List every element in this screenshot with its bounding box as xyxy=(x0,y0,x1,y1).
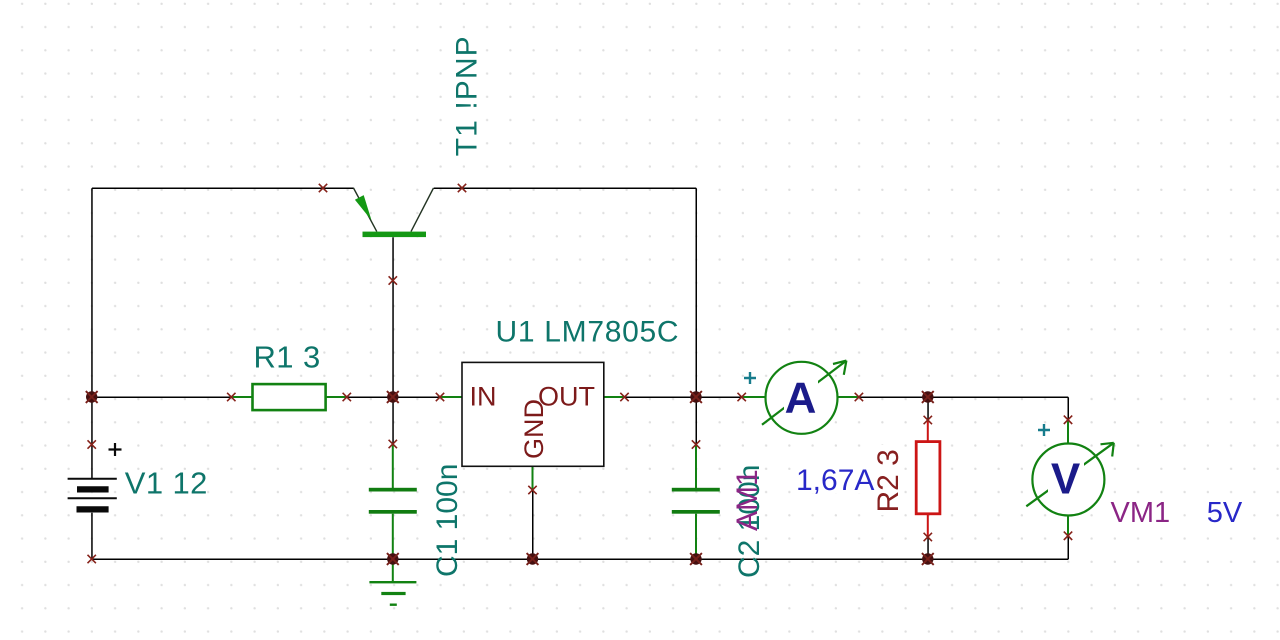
collector leg xyxy=(411,188,434,232)
wire voltmeter top black xyxy=(1067,397,1069,420)
wire top rail right segment xyxy=(434,187,697,189)
wire C1 vertical upper (node to cap) xyxy=(392,397,394,444)
node V1/R1 xyxy=(86,391,98,403)
wire middle rail: R1 to U1 IN xyxy=(347,396,440,398)
svg-text:T1 !PNP: T1 !PNP xyxy=(451,35,484,156)
svg-text:GND: GND xyxy=(519,399,549,459)
node GND pin bottom xyxy=(527,553,539,565)
svg-text:5V: 5V xyxy=(1207,497,1243,529)
wire U1 GND pin lower xyxy=(532,490,534,559)
node OUT/C2 xyxy=(690,391,702,403)
capacitor C2 xyxy=(672,445,720,560)
emitter leg xyxy=(354,188,377,232)
wire left vertical top (V1 to top rail) xyxy=(91,188,93,478)
wire voltmeter bottom black xyxy=(1067,536,1069,559)
transistor T1 xyxy=(354,188,434,237)
svg-text:AM1: AM1 xyxy=(731,469,764,531)
wire R2 upper lead black xyxy=(927,397,929,420)
label T1 !PNP xyxy=(451,35,484,156)
IC U1 LM7805C xyxy=(440,362,625,490)
OUT pin lead xyxy=(604,396,625,398)
label C1 100n xyxy=(431,464,464,577)
wire C2 vertical upper (node to cap) xyxy=(695,397,697,445)
svg-text:R1 3: R1 3 xyxy=(254,340,321,375)
x marks (pin connection points) xyxy=(319,184,327,192)
IN pin lead xyxy=(440,396,462,398)
capacitor C1 xyxy=(369,444,417,559)
label 5V xyxy=(1207,497,1243,529)
wire middle rail: R2 node to voltmeter corner xyxy=(928,396,1068,398)
label U1 LM7805C xyxy=(496,316,680,349)
resistor R1 xyxy=(231,384,346,410)
wire middle rail: C2 node to ammeter xyxy=(696,396,742,398)
wire middle rail: U1 OUT to C2 node xyxy=(625,396,697,398)
wire top rail left segment xyxy=(92,187,354,189)
label VM1 xyxy=(1111,497,1171,529)
ammeter plus sign xyxy=(744,372,756,384)
emitter arrow xyxy=(355,195,372,220)
label R1 3 xyxy=(254,340,321,375)
wire middle rail: junction to R1 xyxy=(92,396,232,398)
ground xyxy=(369,559,416,606)
battery V1 xyxy=(68,479,117,510)
label V1 12 xyxy=(125,466,208,501)
label 1,67A xyxy=(796,464,874,497)
resistor R2 xyxy=(916,420,940,537)
wire bottom rail xyxy=(92,558,1068,560)
svg-text:1,67A: 1,67A xyxy=(796,464,874,497)
base bar xyxy=(363,232,427,238)
node base/R1/C1 xyxy=(387,391,399,403)
node C2 bottom xyxy=(690,553,702,565)
node R2 bottom xyxy=(922,553,934,565)
label R2 3 xyxy=(872,449,905,512)
svg-text:VM1: VM1 xyxy=(1111,497,1171,529)
label C2 100n xyxy=(733,465,766,578)
U1 body xyxy=(462,362,604,466)
svg-text:R2 3: R2 3 xyxy=(872,449,905,512)
node C1/ground xyxy=(387,553,399,565)
node ammeter/R2 xyxy=(922,391,934,403)
wire transistor base vertical xyxy=(392,237,394,397)
svg-text:V: V xyxy=(1051,455,1081,504)
ammeter AM1 xyxy=(742,361,859,434)
wire R2 lower lead black xyxy=(927,537,929,559)
svg-text:C1 100n: C1 100n xyxy=(431,464,464,577)
svg-text:V1 12: V1 12 xyxy=(125,466,208,501)
svg-text:IN: IN xyxy=(470,381,497,411)
voltmeter VM1 xyxy=(1026,420,1114,536)
wire left vertical bottom (V1 to bottom rail) xyxy=(91,513,93,560)
wire middle rail: ammeter to R2 node xyxy=(859,396,928,398)
label backgrounds xyxy=(123,32,1246,578)
voltmeter plus sign xyxy=(1038,424,1050,436)
battery plus sign xyxy=(109,443,122,456)
wire C2 link vertical (top rail to mid rail) xyxy=(695,188,697,397)
svg-text:A: A xyxy=(785,373,817,422)
GND pin lead xyxy=(532,466,534,490)
svg-text:U1 LM7805C: U1 LM7805C xyxy=(496,316,680,349)
